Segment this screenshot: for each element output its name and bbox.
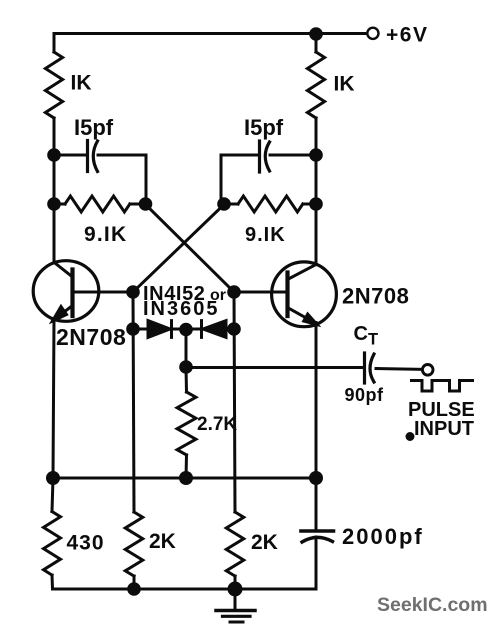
svg-text:2N708: 2N708 [56, 324, 126, 350]
resistor R7 2K left [125, 512, 143, 589]
svg-text:SeekIC.com: SeekIC.com [377, 594, 488, 616]
wire ground bus [53, 588, 317, 591]
diode D1 1N4152 [133, 321, 186, 338]
resistor R4 9.1K right [224, 196, 316, 212]
wire cross-coupling right collector to left base [133, 205, 224, 293]
node diode right [227, 322, 241, 336]
wire rail to +6V terminal [316, 32, 367, 35]
transistor Q2 2N708 right [272, 262, 337, 327]
wire top +6V rail [54, 32, 316, 35]
wire right base column down [234, 292, 235, 512]
svg-text:430: 430 [67, 532, 105, 555]
node bus middle [179, 471, 193, 485]
resistor R5 2.7K [177, 367, 196, 478]
svg-text:2K: 2K [149, 530, 176, 553]
wire Q1 collector [53, 204, 56, 263]
wire emitter bus [53, 477, 316, 480]
pulse waveform icon [412, 381, 473, 392]
resistor R2 1K right [307, 34, 324, 155]
node Q1 base [126, 285, 140, 299]
svg-text:IN3605: IN3605 [143, 298, 220, 320]
diode D2 1N3605 [186, 321, 234, 338]
node left feedback junction [139, 197, 153, 211]
capacitor C2 15pf right [221, 141, 316, 203]
terminal pulse input [422, 365, 433, 376]
transistor Q1 2N708 left [33, 261, 99, 322]
wire right collector column [315, 155, 318, 265]
resistor R1 1K left [45, 34, 62, 156]
svg-text:I5pf: I5pf [74, 115, 114, 140]
svg-text:9.IK: 9.IK [84, 223, 127, 246]
svg-text:INPUT: INPUT [414, 418, 474, 440]
wire Q1 base [74, 291, 133, 294]
ground [216, 589, 255, 622]
svg-text:CT: CT [354, 323, 379, 348]
svg-text:9.IK: 9.IK [245, 224, 286, 246]
wire diode node to trigger node [185, 329, 188, 367]
period mark before INPUT [407, 434, 413, 440]
node right collector bottom [309, 197, 323, 211]
resistor R6 430 [44, 478, 61, 589]
capacitor CT 90pf [365, 353, 422, 383]
node diode middle [179, 323, 193, 337]
node bus right [309, 471, 323, 485]
svg-text:IK: IK [334, 73, 355, 96]
node right feedback junction [217, 197, 231, 211]
node diode left [126, 322, 140, 336]
svg-text:I5pf: I5pf [244, 115, 284, 140]
svg-text:2000pf: 2000pf [342, 524, 424, 549]
wire Q2 base [234, 291, 286, 294]
node left collector top [47, 148, 61, 162]
+6V terminal [367, 28, 378, 39]
svg-text:90pf: 90pf [345, 385, 385, 405]
svg-text:2K: 2K [251, 531, 278, 554]
node ground bus right [228, 582, 243, 597]
node ground bus left [127, 582, 141, 596]
wire left base column down [133, 292, 134, 512]
node top rail junction [309, 27, 323, 41]
wire trigger to CT [186, 366, 364, 369]
node Q2 base [227, 285, 241, 299]
capacitor C1 15pf left [54, 141, 146, 204]
svg-text:+6V: +6V [386, 24, 428, 47]
svg-text:2N708: 2N708 [342, 284, 409, 309]
node bus left [46, 471, 60, 485]
wire Q1 emitter down [53, 320, 54, 479]
resistor R3 9.1K left [54, 196, 146, 212]
wire Q2 emitter down [315, 323, 318, 479]
svg-text:2.7K: 2.7K [197, 414, 237, 435]
capacitor C3 2000pf [301, 478, 334, 589]
node trigger junction [179, 360, 193, 374]
wire cross-coupling left collector to right base [146, 205, 235, 293]
svg-text:IK: IK [71, 72, 92, 95]
node right collector top [309, 148, 323, 162]
resistor R8 2K right [226, 512, 244, 589]
node left collector bottom [47, 197, 61, 211]
wire left collector column [53, 155, 56, 204]
